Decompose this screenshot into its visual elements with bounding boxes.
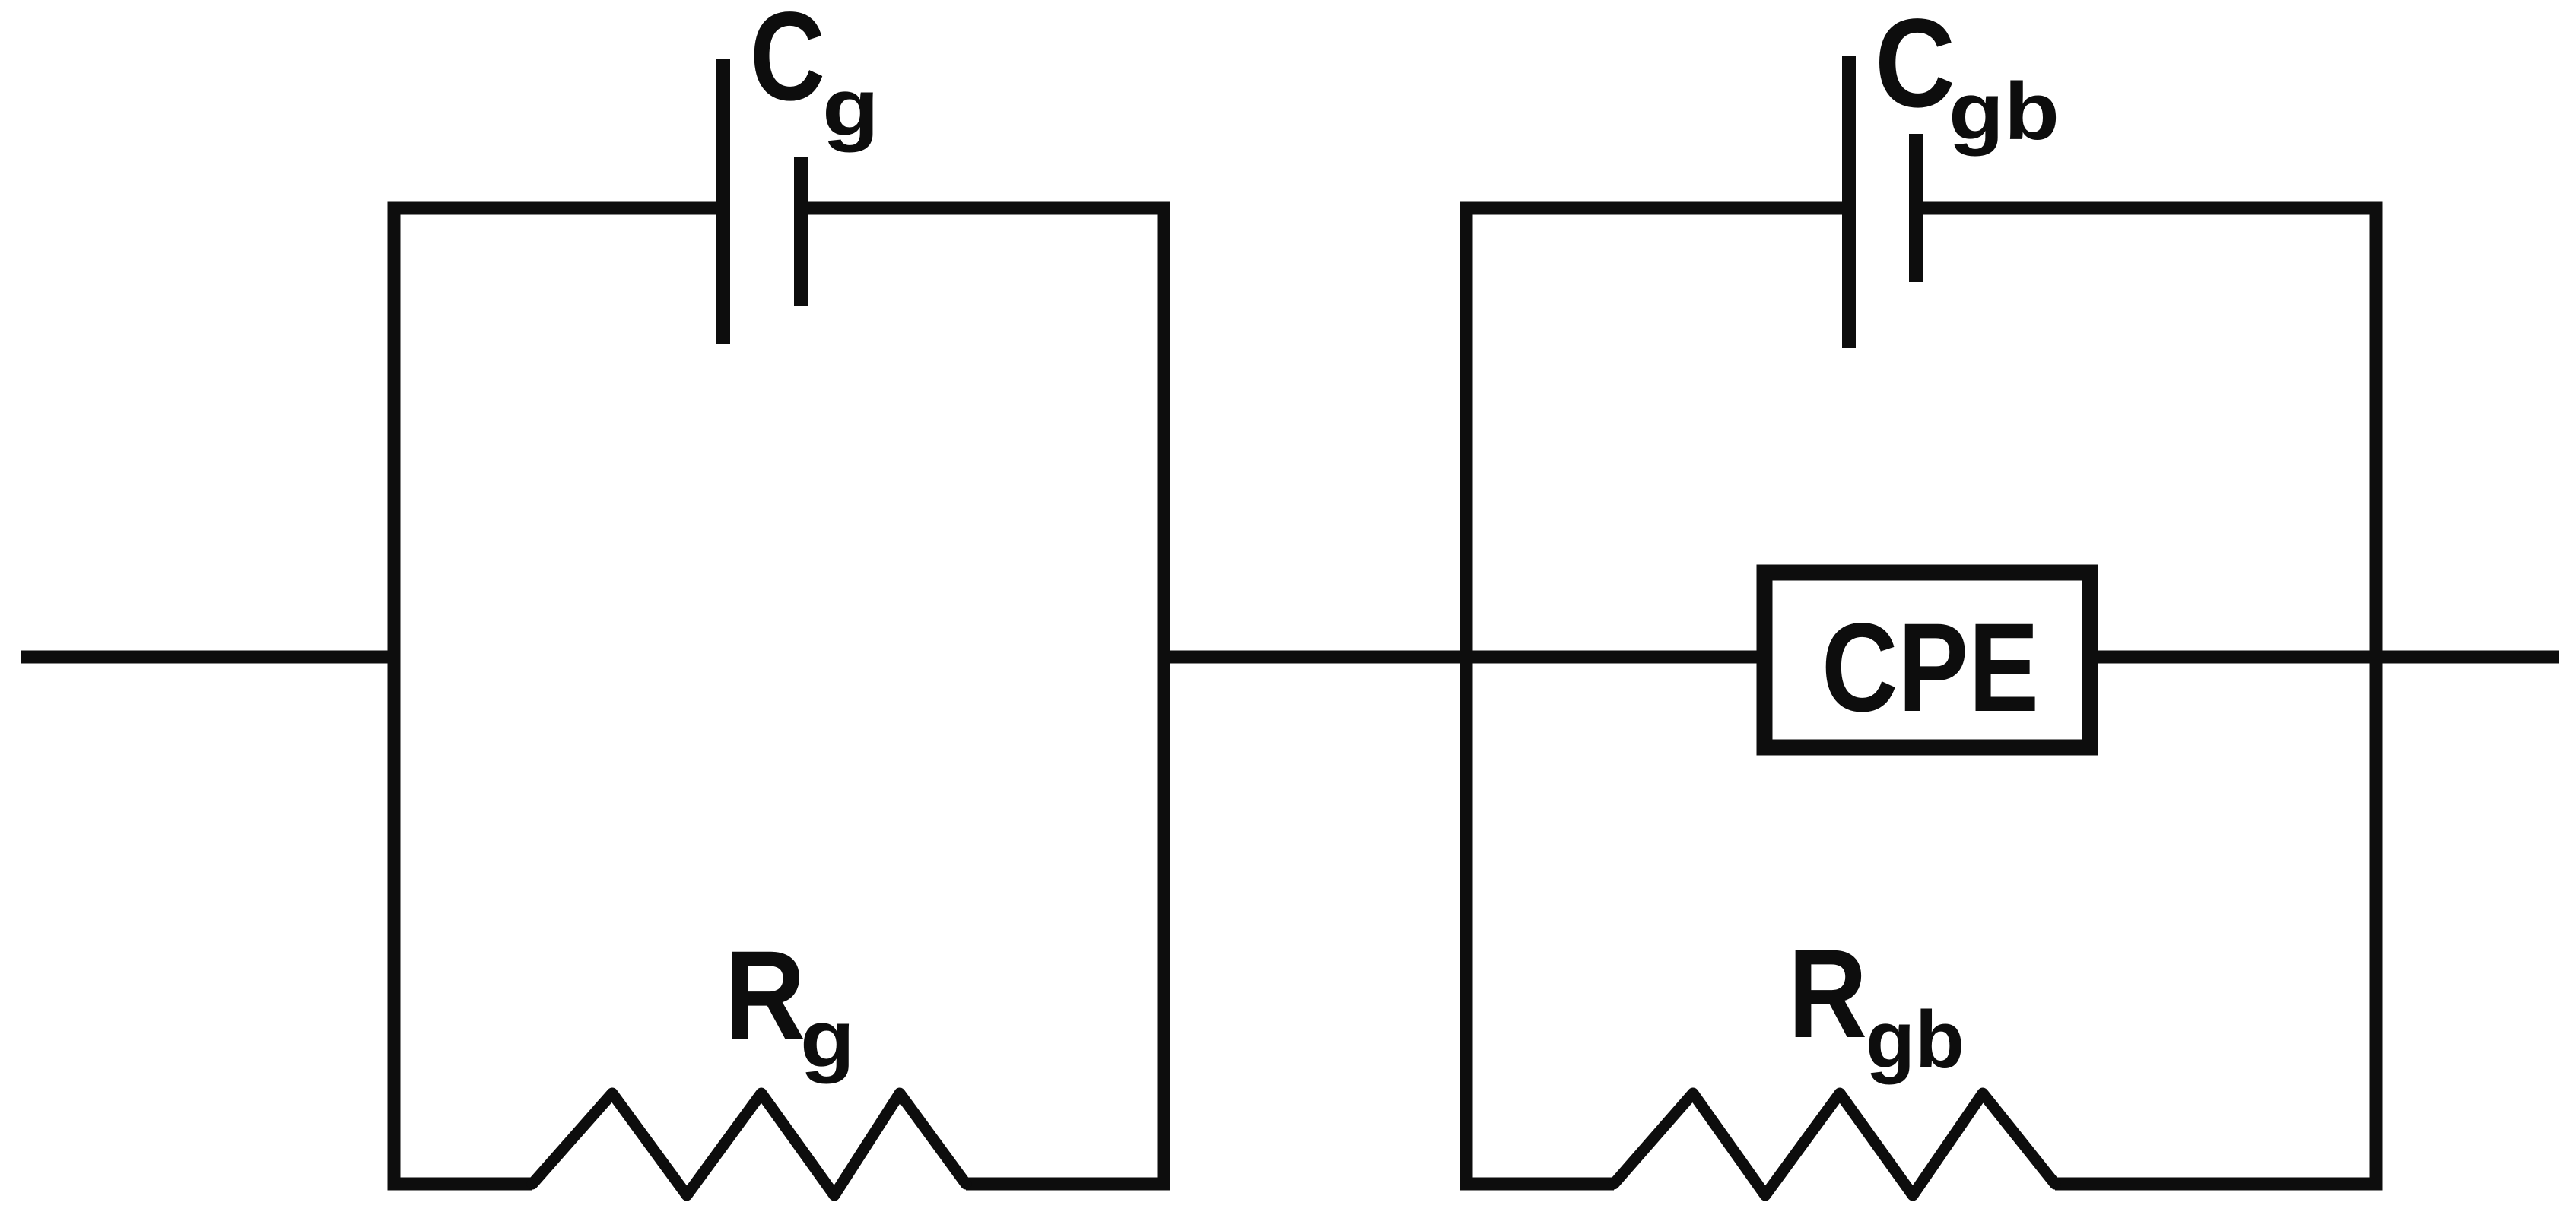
svg-text:C: C bbox=[1875, 0, 1955, 134]
svg-text:gb: gb bbox=[1949, 65, 2060, 157]
svg-text:R: R bbox=[1788, 924, 1867, 1064]
svg-text:R: R bbox=[725, 925, 805, 1066]
svg-text:gb: gb bbox=[1866, 994, 1965, 1085]
svg-text:C: C bbox=[750, 0, 825, 127]
svg-text:CPE: CPE bbox=[1822, 598, 2039, 738]
svg-text:g: g bbox=[822, 62, 879, 153]
svg-text:g: g bbox=[800, 993, 855, 1084]
